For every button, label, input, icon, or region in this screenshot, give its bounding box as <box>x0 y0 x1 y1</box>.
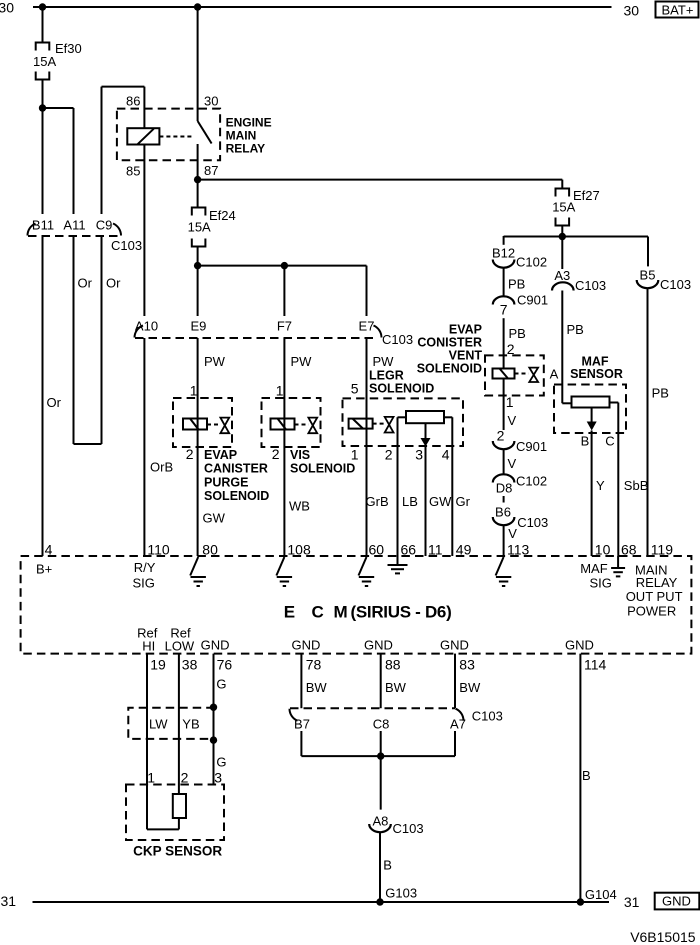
svg-text:B6: B6 <box>495 505 511 520</box>
svg-text:GrB: GrB <box>366 494 389 509</box>
svg-text:108: 108 <box>287 542 311 558</box>
svg-text:PW: PW <box>373 354 395 369</box>
svg-text:B11: B11 <box>32 218 54 233</box>
svg-text:CKP SENSOR: CKP SENSOR <box>133 844 222 859</box>
svg-text:1: 1 <box>506 394 514 410</box>
svg-text:C102: C102 <box>516 474 547 489</box>
svg-text:V: V <box>508 413 517 428</box>
svg-text:2: 2 <box>181 770 189 786</box>
svg-text:SbB: SbB <box>624 478 649 493</box>
svg-text:RELAY: RELAY <box>636 575 678 590</box>
svg-text:1: 1 <box>190 383 198 399</box>
svg-text:4: 4 <box>45 542 53 558</box>
svg-text:31: 31 <box>1 893 17 909</box>
svg-text:C901: C901 <box>517 293 548 308</box>
svg-text:BW: BW <box>385 680 407 695</box>
svg-text:PB: PB <box>509 326 526 341</box>
svg-text:G103: G103 <box>385 886 417 901</box>
svg-text:YB: YB <box>182 717 199 732</box>
svg-text:15A: 15A <box>188 220 211 235</box>
svg-text:C103: C103 <box>382 332 413 347</box>
svg-text:A11: A11 <box>63 218 85 233</box>
svg-text:PW: PW <box>291 354 313 369</box>
svg-text:C103: C103 <box>575 278 606 293</box>
svg-text:OrB: OrB <box>150 460 173 475</box>
svg-text:E7: E7 <box>359 319 375 334</box>
svg-text:Or: Or <box>106 276 121 291</box>
svg-text:SOLENOID: SOLENOID <box>417 362 482 376</box>
svg-text:EVAP: EVAP <box>449 323 482 337</box>
svg-text:G: G <box>216 677 226 692</box>
svg-text:4: 4 <box>442 447 450 463</box>
svg-text:PB: PB <box>652 386 669 401</box>
svg-text:CANISTER: CANISTER <box>204 462 268 476</box>
svg-text:MAF: MAF <box>580 561 608 576</box>
svg-text:76: 76 <box>217 657 233 673</box>
svg-text:PB: PB <box>567 322 584 337</box>
svg-text:2: 2 <box>272 446 280 462</box>
svg-text:BAT+: BAT+ <box>662 3 694 18</box>
svg-text:PW: PW <box>204 354 226 369</box>
svg-text:114: 114 <box>584 657 607 673</box>
svg-text:C103: C103 <box>111 238 142 253</box>
svg-text:F7: F7 <box>277 319 292 334</box>
svg-text:EVAP: EVAP <box>204 448 237 462</box>
svg-text:C9: C9 <box>96 218 113 233</box>
svg-text:86: 86 <box>126 94 140 109</box>
svg-text:68: 68 <box>621 542 637 558</box>
svg-text:SOLENOID: SOLENOID <box>290 462 355 476</box>
svg-text:GW: GW <box>203 511 226 526</box>
svg-text:E9: E9 <box>190 319 206 334</box>
svg-text:RELAY: RELAY <box>226 142 266 156</box>
svg-text:1: 1 <box>147 770 155 786</box>
svg-text:7: 7 <box>500 302 508 318</box>
svg-text:C901: C901 <box>516 439 547 454</box>
svg-text:GND: GND <box>440 638 469 653</box>
svg-text:Ef27: Ef27 <box>573 188 600 203</box>
svg-text:1: 1 <box>276 383 284 399</box>
svg-text:B7: B7 <box>294 717 310 732</box>
svg-text:B: B <box>383 858 392 873</box>
svg-text:38: 38 <box>182 657 198 673</box>
svg-text:B5: B5 <box>640 268 656 283</box>
svg-text:80: 80 <box>202 542 218 558</box>
svg-text:VIS: VIS <box>290 448 310 462</box>
svg-text:GND: GND <box>364 638 393 653</box>
svg-text:VENT: VENT <box>449 349 483 363</box>
svg-text:SOLENOID: SOLENOID <box>204 489 269 503</box>
svg-text:Ef24: Ef24 <box>209 208 236 223</box>
svg-text:C102: C102 <box>516 255 547 270</box>
svg-text:10: 10 <box>595 542 611 558</box>
svg-text:BW: BW <box>306 680 328 695</box>
svg-text:3: 3 <box>214 770 222 786</box>
svg-text:A7: A7 <box>450 717 466 732</box>
svg-text:SOLENOID: SOLENOID <box>369 382 434 396</box>
svg-text:V: V <box>508 456 517 471</box>
svg-text:A8: A8 <box>372 814 388 829</box>
svg-text:85: 85 <box>126 164 140 179</box>
svg-text:LW: LW <box>149 717 168 732</box>
svg-text:C103: C103 <box>660 277 691 292</box>
svg-text:GND: GND <box>565 638 594 653</box>
svg-text:G104: G104 <box>585 887 617 902</box>
svg-text:2: 2 <box>186 446 194 462</box>
svg-text:SIG: SIG <box>590 576 612 591</box>
svg-text:LB: LB <box>402 494 418 509</box>
svg-text:A3: A3 <box>554 268 570 283</box>
svg-text:GND: GND <box>662 894 691 909</box>
svg-text:SENSOR: SENSOR <box>570 367 623 381</box>
svg-text:LEGR: LEGR <box>369 369 404 383</box>
svg-text:49: 49 <box>456 542 472 558</box>
svg-text:POWER: POWER <box>627 604 676 619</box>
svg-text:C8: C8 <box>373 717 390 732</box>
svg-text:PURGE: PURGE <box>204 475 248 489</box>
svg-text:GND: GND <box>201 638 230 653</box>
svg-text:D8: D8 <box>496 481 513 496</box>
svg-text:C103: C103 <box>393 821 424 836</box>
svg-text:88: 88 <box>385 657 401 673</box>
svg-text:Or: Or <box>47 395 62 410</box>
svg-text:3: 3 <box>415 447 423 463</box>
svg-text:2: 2 <box>385 447 393 463</box>
svg-text:G: G <box>216 755 226 770</box>
svg-text:60: 60 <box>369 542 385 558</box>
svg-text:1: 1 <box>351 447 359 463</box>
svg-text:B+: B+ <box>36 562 52 577</box>
svg-text:V: V <box>508 526 517 541</box>
svg-text:87: 87 <box>204 163 218 178</box>
svg-text:15A: 15A <box>33 54 56 69</box>
svg-text:15A: 15A <box>552 200 575 215</box>
svg-text:Y: Y <box>596 478 605 493</box>
svg-text:30: 30 <box>0 0 14 16</box>
svg-text:110: 110 <box>147 542 170 558</box>
svg-text:BW: BW <box>459 680 481 695</box>
svg-text:GW: GW <box>429 494 452 509</box>
svg-text:119: 119 <box>651 542 674 558</box>
svg-text:5: 5 <box>351 381 359 397</box>
svg-text:Gr: Gr <box>456 494 471 509</box>
svg-text:66: 66 <box>401 542 417 558</box>
svg-text:11: 11 <box>428 542 443 558</box>
svg-text:WB: WB <box>289 499 310 514</box>
svg-text:30: 30 <box>624 3 640 19</box>
svg-text:C103: C103 <box>517 515 548 530</box>
svg-text:B12: B12 <box>492 246 515 261</box>
svg-text:CONISTER: CONISTER <box>417 336 482 350</box>
svg-text:19: 19 <box>150 657 166 673</box>
svg-text:MAIN: MAIN <box>226 129 257 143</box>
svg-text:A: A <box>550 367 559 382</box>
svg-text:A10: A10 <box>135 319 158 334</box>
svg-text:SIG: SIG <box>133 576 155 591</box>
svg-text:B: B <box>582 768 591 783</box>
svg-text:LOW: LOW <box>165 639 195 654</box>
svg-text:83: 83 <box>459 657 475 673</box>
svg-text:31: 31 <box>624 894 640 910</box>
svg-text:GND: GND <box>292 638 321 653</box>
svg-text:R/Y: R/Y <box>134 560 156 575</box>
svg-text:C: C <box>605 434 614 449</box>
svg-text:ENGINE: ENGINE <box>226 116 272 130</box>
svg-text:Ef30: Ef30 <box>55 41 82 56</box>
svg-text:OUT PUT: OUT PUT <box>626 589 683 604</box>
svg-text:PB: PB <box>508 277 525 292</box>
svg-text:C103: C103 <box>472 709 503 724</box>
svg-text:30: 30 <box>204 94 218 109</box>
svg-text:2: 2 <box>497 428 505 444</box>
svg-text:HI: HI <box>142 639 155 654</box>
svg-text:78: 78 <box>306 657 322 673</box>
svg-text:V6B15015: V6B15015 <box>630 929 696 945</box>
svg-text:Or: Or <box>78 276 93 291</box>
svg-text:113: 113 <box>507 542 530 558</box>
svg-text:B: B <box>581 434 590 449</box>
